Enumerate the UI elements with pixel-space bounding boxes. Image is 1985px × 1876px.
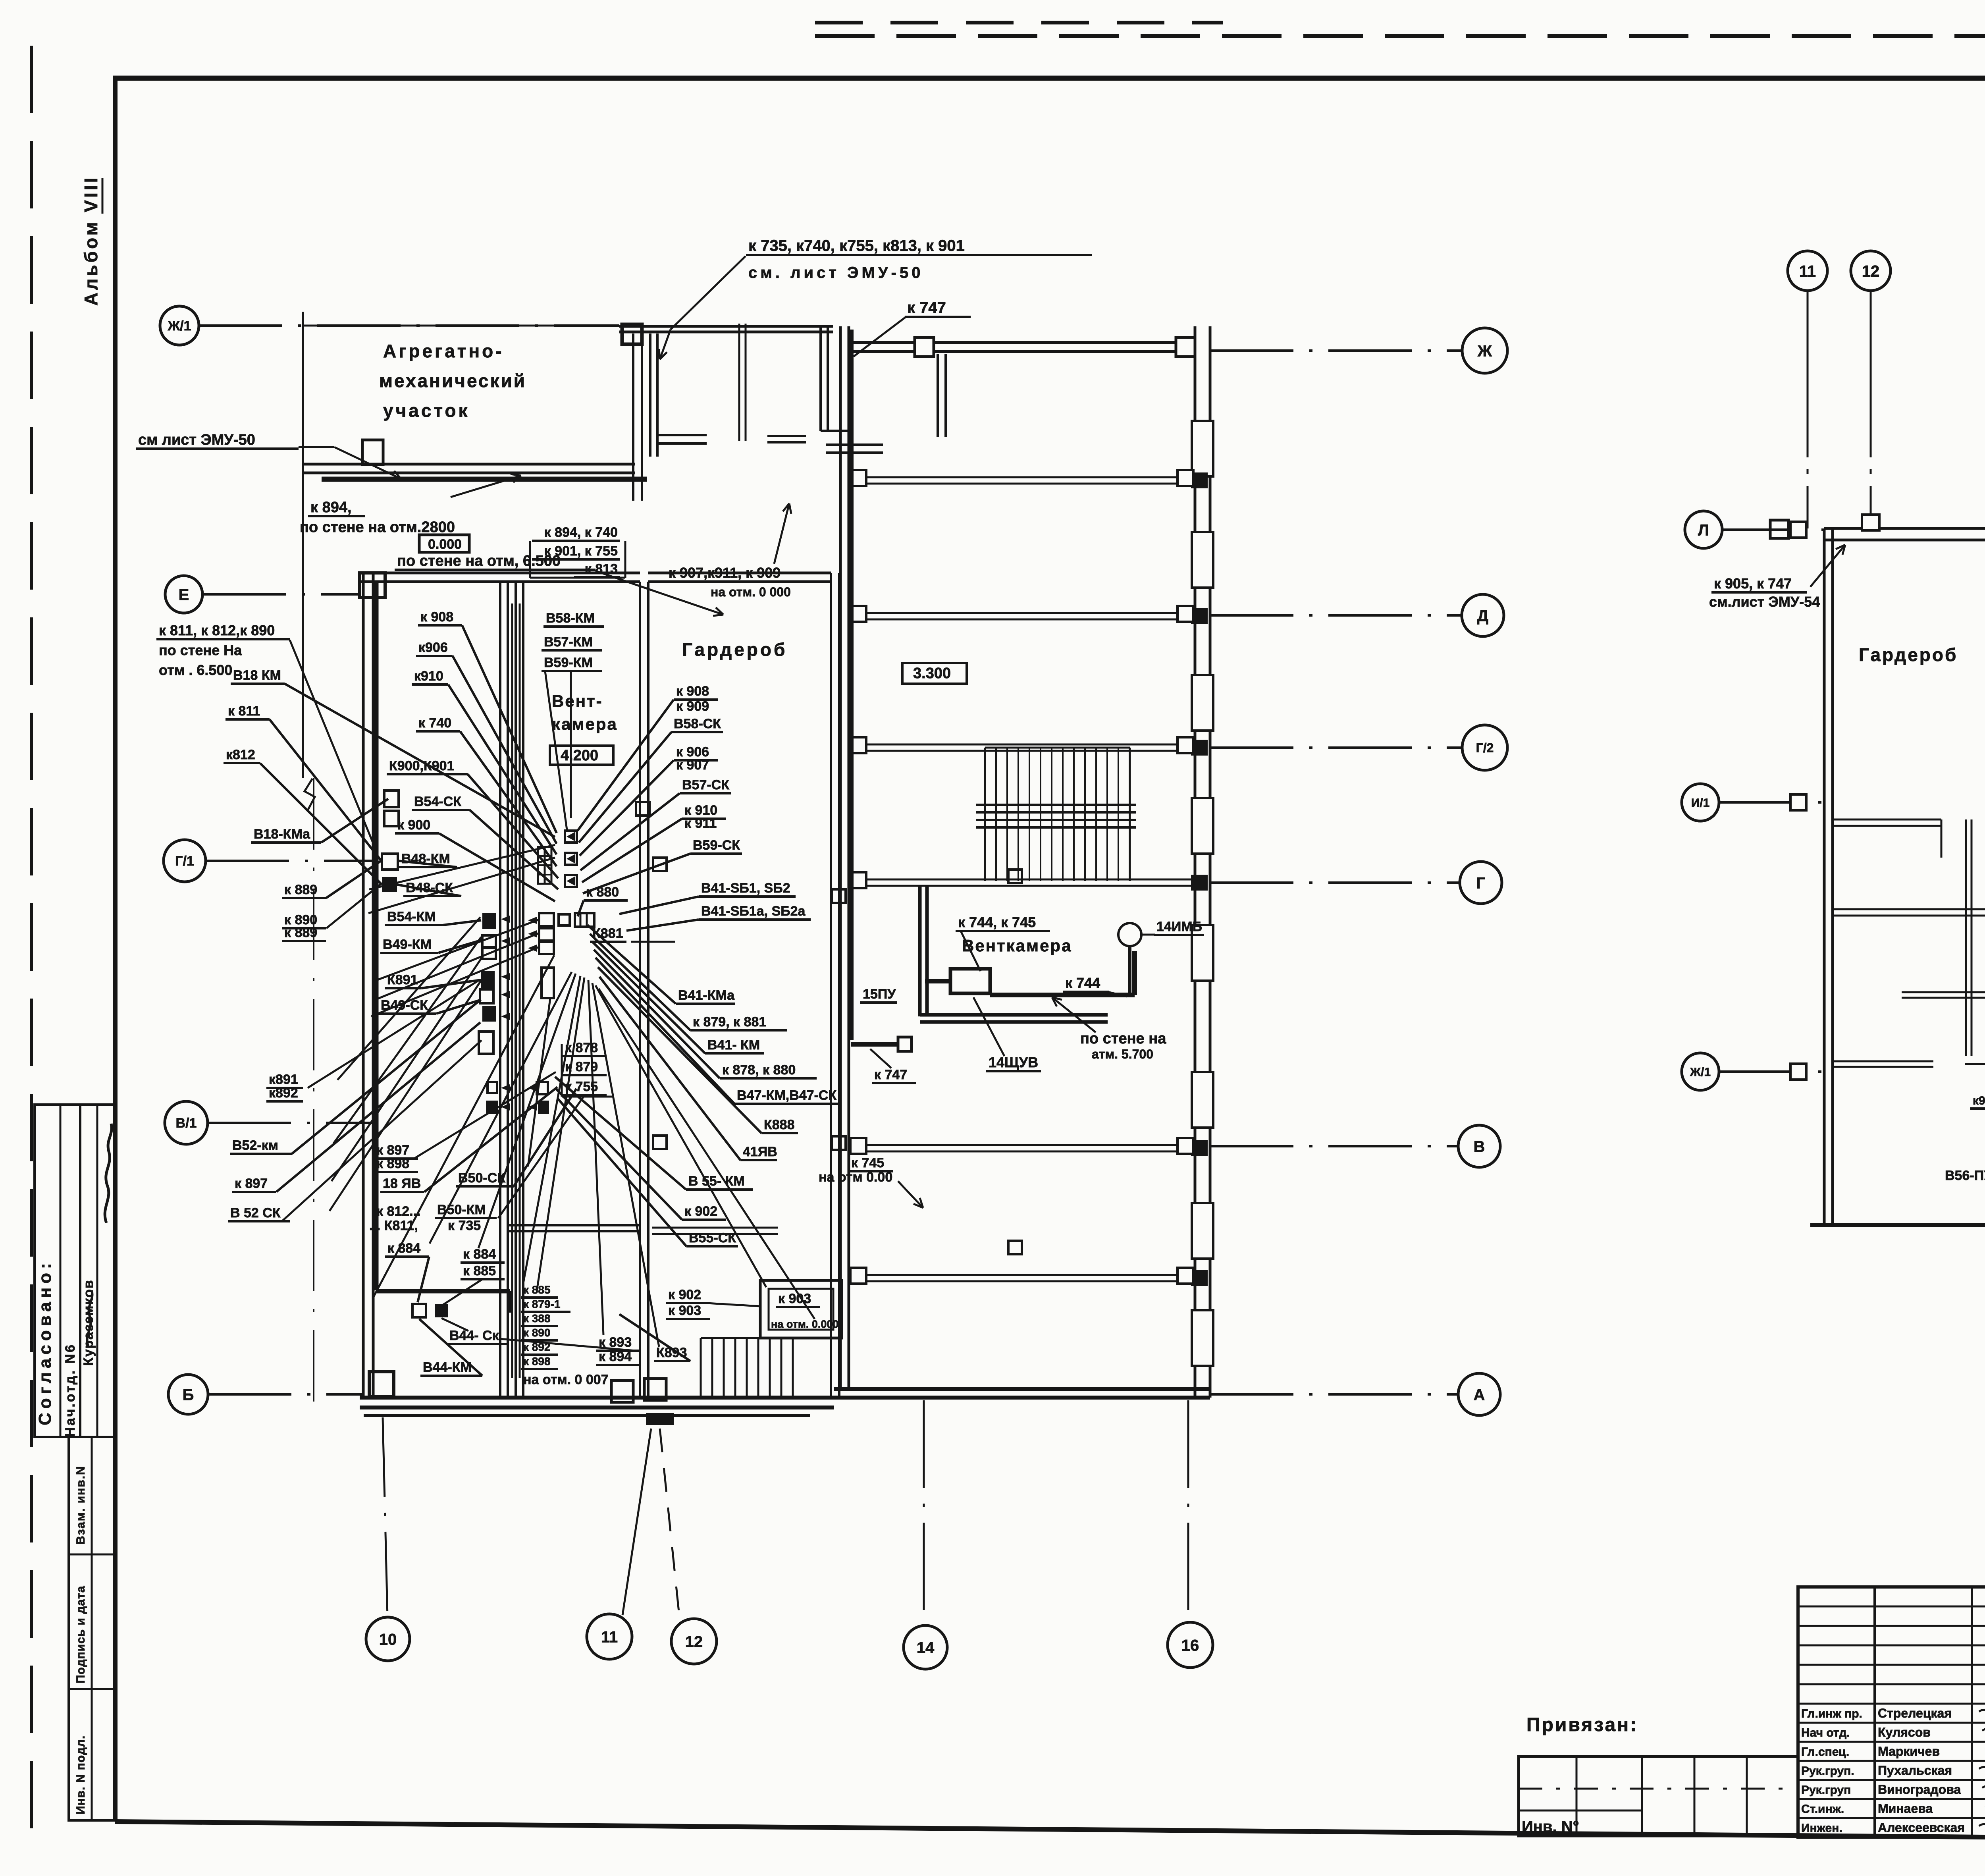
svg-text:Виноградова: Виноградова (1878, 1782, 1961, 1797)
svg-text:В 55- КМ: В 55- КМ (688, 1174, 745, 1189)
svg-text:В56-ПУ: В56-ПУ (1945, 1168, 1985, 1183)
svg-text:по стене на отм.2800: по стене на отм.2800 (300, 519, 455, 536)
svg-text:к 894: к 894 (599, 1349, 632, 1364)
svg-text:В41-SБ1, SБ2: В41-SБ1, SБ2 (701, 881, 790, 896)
svg-text:Б: Б (183, 1386, 194, 1404)
svg-text:А: А (1474, 1386, 1485, 1404)
svg-text:к 884: к 884 (463, 1247, 496, 1262)
svg-text:В49-КМ: В49-КМ (383, 937, 432, 952)
svg-text:к 747: к 747 (874, 1067, 907, 1082)
svg-text:Кураземков: Кураземков (81, 1279, 96, 1366)
svg-text:к 900: к 900 (397, 817, 430, 833)
svg-text:к 388: к 388 (523, 1312, 551, 1325)
svg-text:к905: к905 (1973, 1094, 1985, 1107)
svg-text:Гл.спец.: Гл.спец. (1801, 1745, 1849, 1758)
svg-text:к 890: к 890 (523, 1327, 551, 1339)
svg-text:В58-СК: В58-СК (674, 716, 721, 731)
svg-text:к812: к812 (226, 747, 255, 762)
svg-text:к 907,к911, к 909: к 907,к911, к 909 (669, 565, 781, 581)
svg-text:В/1: В/1 (176, 1116, 197, 1131)
svg-text:к 878, к 880: к 878, к 880 (722, 1062, 796, 1078)
svg-text:Пухальская: Пухальская (1878, 1763, 1952, 1778)
svg-text:В59-КМ: В59-КМ (544, 655, 593, 670)
svg-text:Гардероб: Гардероб (1859, 644, 1958, 665)
svg-text:на отм. 0 007: на отм. 0 007 (523, 1372, 609, 1387)
svg-text:к 894,: к 894, (310, 499, 352, 516)
svg-text:14ИМБ: 14ИМБ (1156, 919, 1202, 934)
svg-text:к 879-1: к 879-1 (523, 1298, 560, 1310)
svg-text:14: 14 (917, 1639, 935, 1656)
svg-text:отм . 6.500: отм . 6.500 (159, 662, 232, 678)
svg-text:Гл.инж пр.: Гл.инж пр. (1801, 1707, 1862, 1720)
svg-text:В57-СК: В57-СК (682, 777, 729, 792)
svg-text:к 879, к 881: к 879, к 881 (693, 1014, 766, 1030)
svg-text:к 889: к 889 (284, 925, 317, 940)
svg-text:к892: к892 (269, 1085, 298, 1101)
svg-text:к 903: к 903 (778, 1291, 811, 1306)
svg-text:В18 КМ: В18 КМ (233, 668, 281, 683)
svg-text:к 745: к 745 (851, 1155, 884, 1170)
svg-text:Л: Л (1698, 521, 1709, 539)
svg-text:В54-СК: В54-СК (414, 794, 461, 809)
svg-text:0.000: 0.000 (428, 537, 462, 552)
svg-text:к910: к910 (414, 669, 443, 684)
svg-text:к 735, к740, к755, к813, к 901: к 735, к740, к755, к813, к 901 (748, 237, 965, 255)
svg-text:атм. 5.700: атм. 5.700 (1092, 1047, 1153, 1061)
svg-text:Кулясов: Кулясов (1878, 1725, 1931, 1739)
svg-text:Ст.инж.: Ст.инж. (1801, 1803, 1844, 1816)
svg-text:В57-КМ: В57-КМ (544, 634, 593, 650)
svg-text:механический: механический (379, 370, 526, 391)
svg-text:Г/2: Г/2 (1476, 741, 1494, 755)
svg-text:И/1: И/1 (1691, 796, 1710, 810)
svg-text:Гардероб: Гардероб (682, 639, 787, 660)
svg-text:к 909: к 909 (676, 699, 709, 714)
svg-text:камера: камера (552, 715, 618, 733)
svg-text:к 911: к 911 (684, 816, 717, 831)
svg-text:к 747: к 747 (907, 299, 946, 316)
svg-text:к 902: к 902 (684, 1204, 717, 1219)
svg-text:участок: участок (383, 400, 470, 421)
svg-text:К888: К888 (764, 1117, 794, 1132)
svg-text:к 884: к 884 (387, 1241, 420, 1256)
svg-text:см.лист ЭМУ-54: см.лист ЭМУ-54 (1709, 594, 1820, 610)
svg-text:к 908: к 908 (420, 609, 453, 625)
svg-text:к 811, к 812,к 890: к 811, к 812,к 890 (159, 622, 275, 638)
svg-text:Взам. инв.N: Взам. инв.N (74, 1465, 87, 1544)
svg-text:Маркичев: Маркичев (1878, 1744, 1940, 1758)
svg-text:В54-КМ: В54-КМ (387, 909, 436, 924)
svg-text:к906: к906 (418, 640, 448, 655)
svg-text:Ж: Ж (1477, 342, 1492, 360)
svg-text:12: 12 (685, 1633, 703, 1650)
svg-text:к 885: к 885 (523, 1284, 551, 1296)
svg-text:Нач отд.: Нач отд. (1801, 1726, 1850, 1739)
svg-text:на отм. 0.000: на отм. 0.000 (771, 1318, 838, 1330)
svg-text:Д: Д (1477, 607, 1489, 625)
svg-text:В18-КМа: В18-КМа (254, 827, 310, 842)
svg-text:Инв. N подл.: Инв. N подл. (74, 1735, 87, 1814)
svg-text:к 902: к 902 (668, 1287, 701, 1302)
svg-text:Инжен.: Инжен. (1801, 1822, 1842, 1835)
svg-text:В41-КМа: В41-КМа (678, 988, 735, 1003)
svg-text:В59-СК: В59-СК (693, 838, 740, 853)
svg-text:16: 16 (1181, 1637, 1199, 1654)
svg-text:В55-СК: В55-СК (689, 1230, 736, 1246)
svg-text:Согласовано:: Согласовано: (35, 1259, 55, 1425)
svg-text:к 889: к 889 (284, 882, 317, 897)
svg-text:14ЩУВ: 14ЩУВ (989, 1054, 1038, 1070)
svg-text:В 52 СК: В 52 СК (230, 1205, 281, 1220)
svg-text:В44-КМ: В44-КМ (423, 1360, 472, 1375)
svg-text:см. лист ЭМУ-50: см. лист ЭМУ-50 (748, 264, 923, 281)
svg-text:к 811: к 811 (228, 704, 260, 719)
svg-text:к 901, к 755: к 901, к 755 (544, 544, 618, 559)
svg-text:к 894, к 740: к 894, к 740 (544, 525, 618, 540)
svg-text:Вент-: Вент- (552, 692, 603, 710)
svg-text:К900,К901: К900,К901 (389, 758, 454, 773)
svg-text:Ж/1: Ж/1 (167, 318, 191, 334)
svg-text:к 744: к 744 (1065, 975, 1100, 991)
svg-text:к 744, к 745: к 744, к 745 (958, 914, 1036, 930)
svg-text:на отм. 0 000: на отм. 0 000 (711, 585, 791, 599)
svg-text:Ж/1: Ж/1 (1690, 1066, 1711, 1079)
svg-text:к 885: к 885 (463, 1263, 496, 1278)
svg-text:на отм 0.00: на отм 0.00 (819, 1170, 892, 1185)
svg-text:Стрелецкая: Стрелецкая (1878, 1706, 1952, 1720)
svg-text:Привязан:: Привязан: (1526, 1714, 1638, 1735)
svg-text:по стене на: по стене на (1080, 1030, 1166, 1047)
svg-text:Рук.груп: Рук.груп (1801, 1783, 1851, 1797)
svg-text:15ПУ: 15ПУ (863, 987, 896, 1002)
svg-text:к 907: к 907 (676, 758, 709, 773)
svg-text:11: 11 (601, 1628, 618, 1646)
svg-text:Агрегатно-: Агрегатно- (383, 341, 504, 361)
svg-text:В52-км: В52-км (232, 1138, 278, 1153)
svg-text:Е: Е (179, 586, 189, 603)
svg-text:41ЯВ: 41ЯВ (743, 1144, 777, 1159)
svg-text:Инв. N°: Инв. N° (1522, 1818, 1579, 1836)
svg-text:10: 10 (379, 1631, 397, 1648)
svg-text:к 905, к 747: к 905, к 747 (1714, 575, 1792, 592)
svg-text:к 878: к 878 (565, 1040, 598, 1055)
svg-text:В44- Ск: В44- Ск (449, 1328, 499, 1343)
svg-text:Рук.груп.: Рук.груп. (1801, 1764, 1854, 1778)
svg-text:4.200: 4.200 (561, 747, 598, 764)
svg-text:к 903: к 903 (668, 1303, 701, 1318)
svg-text:Г/1: Г/1 (175, 854, 194, 869)
svg-text:по стене На: по стене На (159, 642, 242, 658)
svg-text:Альбом VIII: Альбом VIII (81, 175, 101, 306)
svg-text:Минаева: Минаева (1878, 1801, 1933, 1816)
svg-text:к 908: к 908 (676, 684, 709, 699)
svg-text:11: 11 (1799, 262, 1816, 280)
svg-text:к 898: к 898 (376, 1156, 409, 1171)
svg-text:Алексеевская: Алексеевская (1878, 1820, 1965, 1835)
svg-text:к 897: к 897 (376, 1143, 409, 1158)
svg-text:18 ЯВ: 18 ЯВ (383, 1176, 421, 1191)
svg-text:к 813: к 813 (585, 561, 618, 576)
svg-text:Нач.отд. N6: Нач.отд. N6 (63, 1343, 78, 1437)
svg-text:В41-SБ1а, SБ2а: В41-SБ1а, SБ2а (701, 904, 806, 919)
svg-text:Венткамера: Венткамера (962, 936, 1072, 955)
svg-text:В41- КМ: В41- КМ (707, 1037, 760, 1053)
svg-text:к891: к891 (269, 1072, 298, 1087)
svg-text:к 740: к 740 (418, 715, 451, 731)
svg-text:к 880: к 880 (586, 885, 619, 900)
svg-text:к 812...: к 812... (376, 1204, 421, 1219)
svg-text:к 897: к 897 (235, 1176, 268, 1191)
svg-text:В50-СК: В50-СК (458, 1170, 505, 1186)
svg-text:к 735: к 735 (448, 1218, 481, 1233)
svg-text:см лист ЭМУ-50: см лист ЭМУ-50 (138, 432, 255, 448)
svg-text:3.300: 3.300 (913, 665, 951, 682)
svg-text:В58-КМ: В58-КМ (546, 611, 595, 626)
svg-text:В47-КМ,В47-СК: В47-КМ,В47-СК (737, 1088, 836, 1103)
svg-text:Г: Г (1476, 874, 1486, 892)
svg-text:12: 12 (1862, 262, 1880, 280)
svg-text:к 898: к 898 (523, 1355, 551, 1367)
svg-text:В: В (1474, 1138, 1485, 1155)
svg-text:по стене на отм, 6.500: по стене на отм, 6.500 (397, 553, 561, 569)
svg-text:Подпись и дата: Подпись и дата (74, 1586, 87, 1683)
